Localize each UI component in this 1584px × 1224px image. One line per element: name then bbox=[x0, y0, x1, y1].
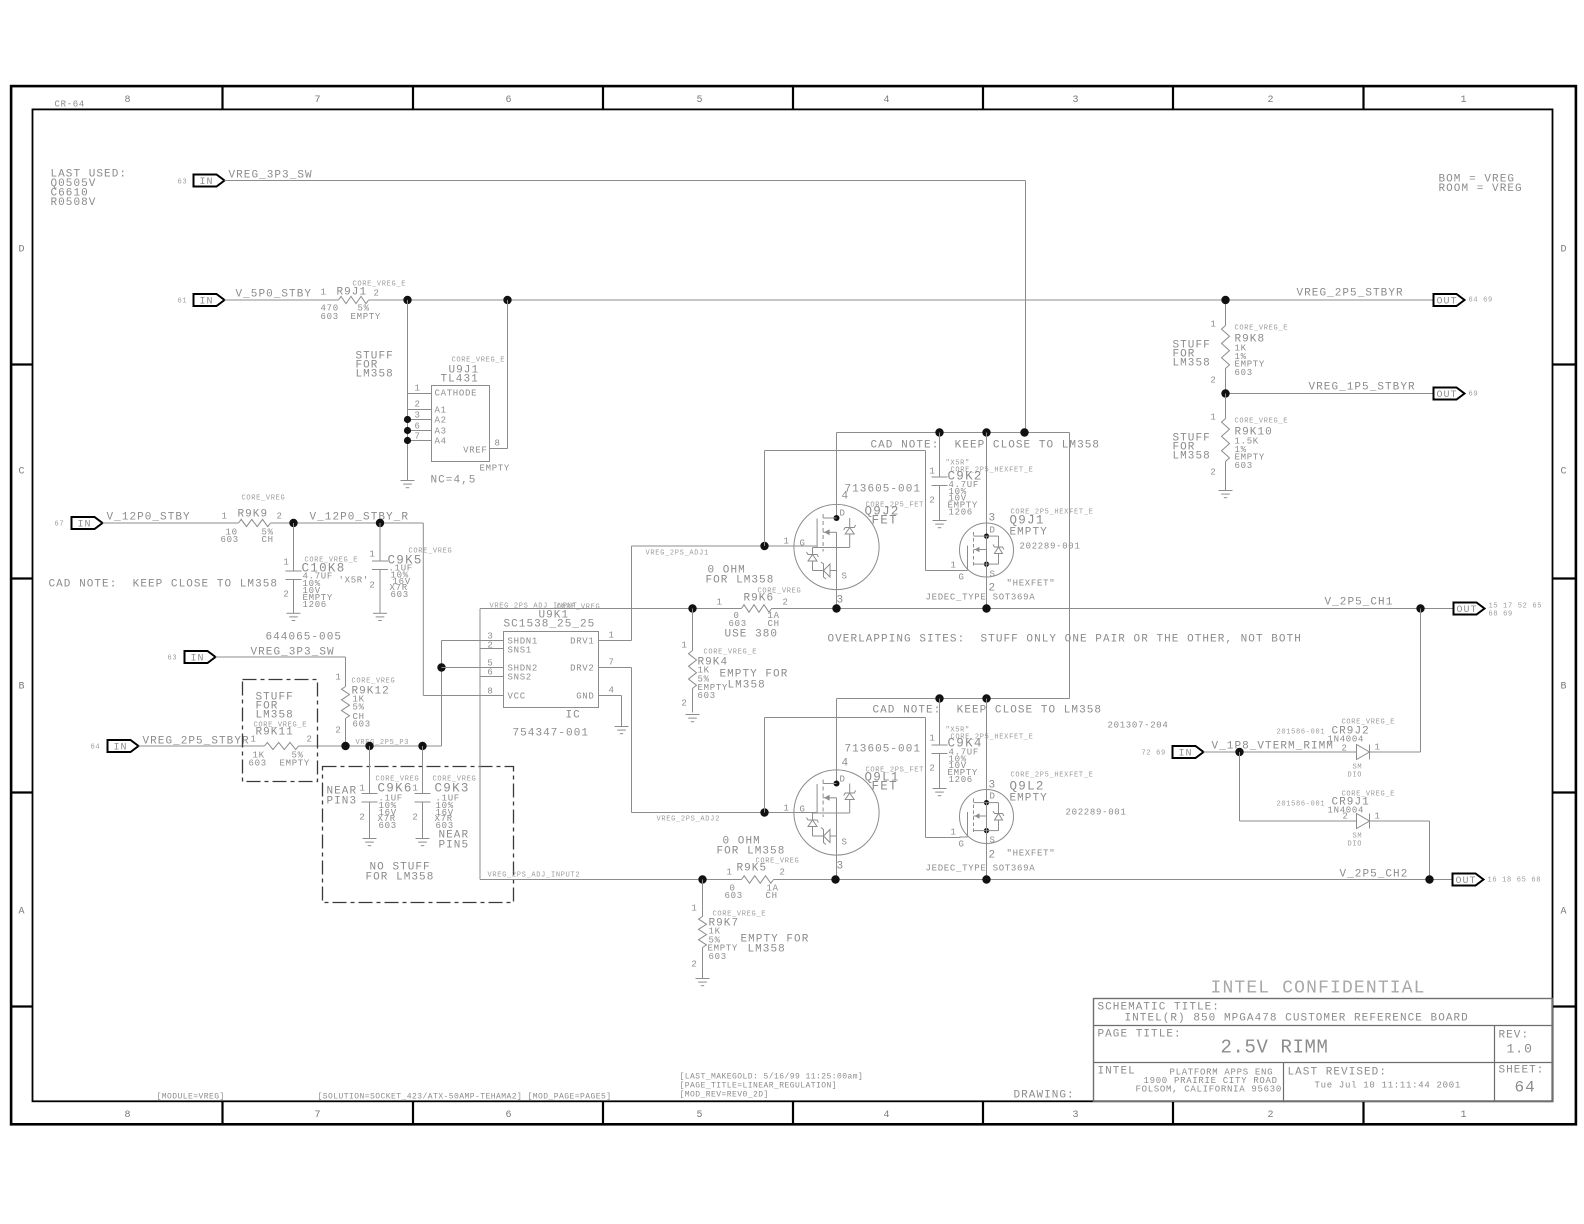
svg-text:CAD NOTE: KEEP CLOSE TO LM358: CAD NOTE: KEEP CLOSE TO LM358 bbox=[49, 579, 279, 591]
svg-text:V_12P0_STBY: V_12P0_STBY bbox=[107, 512, 191, 524]
svg-text:1: 1 bbox=[929, 467, 935, 477]
svg-text:603: 603 bbox=[391, 590, 409, 600]
svg-text:S: S bbox=[842, 572, 848, 582]
note VREG_2PS_ADJ_INPUT2 bbox=[488, 872, 581, 880]
svg-text:OVERLAPPING SITES: STUFF ONLY: OVERLAPPING SITES: STUFF ONLY ONE PAIR O… bbox=[828, 634, 1302, 646]
svg-text:2: 2 bbox=[989, 850, 997, 862]
resistor R9K8 bbox=[1210, 300, 1288, 394]
svg-text:[LAST_MAKEGOLD: 5/16/99 11:25:: [LAST_MAKEGOLD: 5/16/99 11:25:00am] bbox=[680, 1073, 864, 1082]
note LAST USED list bbox=[51, 169, 128, 210]
svg-text:C: C bbox=[19, 467, 26, 478]
svg-text:VREG_2P5_STBYR: VREG_2P5_STBYR bbox=[1297, 288, 1404, 300]
svg-text:USE 380: USE 380 bbox=[725, 629, 779, 641]
svg-text:1: 1 bbox=[335, 673, 341, 683]
svg-text:3: 3 bbox=[837, 861, 845, 873]
svg-text:7: 7 bbox=[315, 95, 322, 106]
junction TL431 pin 6 bbox=[404, 427, 411, 434]
capacitor C9K4 bbox=[929, 699, 1033, 789]
wire V_1P8_VTERM_RIMM bbox=[1204, 751, 1357, 753]
svg-text:1: 1 bbox=[369, 550, 375, 560]
wire VREG_2P5_P3 bbox=[299, 641, 442, 748]
junction V_2P5_CH1 / Q9J2 source bbox=[832, 604, 840, 612]
junction TL431 pin 7 bbox=[404, 437, 411, 444]
junction drain rail / VREG_3P3_SW bbox=[1020, 428, 1028, 436]
svg-text:A: A bbox=[1561, 907, 1568, 918]
svg-text:1: 1 bbox=[717, 598, 723, 608]
diode CR9J1 1N4004 bbox=[1277, 791, 1396, 849]
svg-text:NC=4,5: NC=4,5 bbox=[431, 475, 477, 487]
note dashed box NO STUFF FOR LM358 bbox=[323, 767, 514, 903]
svg-text:202289-001: 202289-001 bbox=[1020, 542, 1081, 552]
wire CR9J2 cathode to V_2P5_CH1 bbox=[1370, 609, 1421, 753]
ground (C9K3) bbox=[416, 839, 430, 846]
svg-text:G: G bbox=[959, 840, 965, 850]
svg-text:603: 603 bbox=[709, 952, 727, 962]
wire drain rail lower (CAD NOTE) bbox=[837, 698, 1070, 700]
svg-text:D: D bbox=[19, 245, 26, 256]
svg-text:2: 2 bbox=[415, 400, 421, 410]
note part 644065-005 bbox=[266, 632, 343, 644]
svg-text:A1: A1 bbox=[435, 406, 447, 416]
op-amp U9J1 TL431 bbox=[408, 357, 511, 487]
port 67 IN V_12P0_STBY bbox=[55, 512, 191, 531]
svg-text:202289-001: 202289-001 bbox=[1066, 808, 1127, 818]
svg-text:DRV1: DRV1 bbox=[570, 637, 594, 647]
port 63 IN VREG_3P3_SW (lower) bbox=[168, 647, 335, 665]
svg-text:63: 63 bbox=[178, 179, 188, 187]
svg-text:FET: FET bbox=[872, 780, 898, 794]
resistor R9K10 bbox=[1210, 394, 1288, 491]
svg-text:LM358: LM358 bbox=[1173, 451, 1211, 463]
svg-text:B: B bbox=[19, 682, 26, 693]
svg-text:SC1538_25_25: SC1538_25_25 bbox=[504, 619, 596, 631]
svg-text:3: 3 bbox=[989, 513, 997, 525]
svg-text:1: 1 bbox=[929, 734, 935, 744]
transistor Q9L2 HEXFET bbox=[926, 699, 1127, 880]
svg-text:VREG_1P5_STBYR: VREG_1P5_STBYR bbox=[1309, 382, 1416, 394]
port OUT VREG_2P5_STBYR bbox=[1297, 288, 1493, 308]
svg-text:VREG_2PS_ADJ1: VREG_2PS_ADJ1 bbox=[646, 550, 709, 558]
port OUT VREG_1P5_STBYR bbox=[1309, 382, 1479, 402]
svg-text:603: 603 bbox=[698, 691, 716, 701]
wire TL431 cathode/anode stack bbox=[407, 300, 409, 481]
resistor R9J1 bbox=[321, 281, 407, 323]
svg-text:LM358: LM358 bbox=[356, 369, 394, 381]
svg-text:INTEL CONFIDENTIAL: INTEL CONFIDENTIAL bbox=[1211, 979, 1426, 999]
junction V_12P0_STBY_R / C9K5 bbox=[376, 519, 384, 527]
wire VREG_3P3_SW bbox=[225, 181, 1026, 433]
resistor R9K5 bbox=[725, 858, 800, 902]
svg-text:D: D bbox=[840, 775, 846, 785]
svg-text:FOR LM358: FOR LM358 bbox=[366, 872, 435, 884]
port 61 IN V_5P0_STBY bbox=[178, 289, 313, 308]
svg-text:[PAGE_TITLE=LINEAR_REGULATION]: [PAGE_TITLE=LINEAR_REGULATION] bbox=[680, 1082, 838, 1091]
ground (C9K4) bbox=[933, 789, 947, 796]
IC U9K1 SC1538_25_25 bbox=[487, 603, 614, 740]
svg-text:"HEXFET": "HEXFET" bbox=[1007, 849, 1056, 859]
diode CR9J2 1N4004 bbox=[1277, 719, 1396, 780]
resistor R9K11 bbox=[249, 722, 313, 769]
svg-text:1: 1 bbox=[222, 512, 228, 522]
note DRAWING: bbox=[1014, 1090, 1075, 1102]
svg-text:2: 2 bbox=[1343, 812, 1349, 822]
svg-text:VREG_2P5_P3: VREG_2P5_P3 bbox=[356, 739, 410, 747]
junction V_2P5_CH2 / CR9J1 bbox=[1425, 875, 1433, 883]
svg-text:S: S bbox=[990, 836, 996, 846]
svg-text:A: A bbox=[19, 907, 26, 918]
svg-text:1: 1 bbox=[609, 631, 615, 641]
svg-text:2.5V RIMM: 2.5V RIMM bbox=[1221, 1037, 1329, 1059]
capacitor C9K3 bbox=[412, 746, 476, 852]
svg-text:S: S bbox=[842, 838, 848, 848]
svg-text:4: 4 bbox=[884, 1110, 891, 1121]
junction on V_5P0_STBY at VREF feedback bbox=[503, 296, 511, 304]
svg-text:1: 1 bbox=[1210, 413, 1216, 423]
svg-text:72 69: 72 69 bbox=[1142, 750, 1166, 758]
svg-text:EMPTY: EMPTY bbox=[1010, 527, 1048, 539]
svg-text:1: 1 bbox=[951, 561, 957, 571]
svg-text:4: 4 bbox=[842, 758, 850, 770]
svg-text:603: 603 bbox=[725, 891, 743, 901]
svg-text:2: 2 bbox=[374, 289, 380, 299]
svg-text:Tue Jul 10 11:11:44 2001: Tue Jul 10 11:11:44 2001 bbox=[1315, 1081, 1461, 1091]
svg-text:4: 4 bbox=[884, 95, 891, 106]
svg-text:OUT: OUT bbox=[1437, 390, 1458, 401]
wire gate link to Q9J1 bbox=[765, 451, 961, 571]
svg-text:1: 1 bbox=[951, 828, 957, 838]
svg-text:CORE_VREG: CORE_VREG bbox=[242, 495, 286, 503]
svg-text:5: 5 bbox=[697, 1110, 704, 1121]
svg-text:2: 2 bbox=[681, 699, 687, 709]
svg-text:D: D bbox=[990, 792, 996, 802]
svg-text:1: 1 bbox=[727, 868, 733, 878]
svg-text:VREG_2PS_ADJ_INPUT2: VREG_2PS_ADJ_INPUT2 bbox=[488, 872, 581, 880]
svg-text:603: 603 bbox=[249, 759, 267, 769]
ground (R9K10) bbox=[1219, 491, 1233, 498]
transistor Q9J2 FET bbox=[784, 433, 925, 609]
junction P3 / R9K12 bbox=[341, 742, 349, 750]
svg-text:2: 2 bbox=[412, 813, 418, 823]
junction P3 / C9K6 bbox=[365, 742, 373, 750]
svg-text:OUT: OUT bbox=[1456, 876, 1477, 887]
resistor R9K9 bbox=[221, 495, 286, 546]
ground (R9K7) bbox=[696, 979, 710, 986]
svg-text:603: 603 bbox=[729, 619, 747, 629]
svg-text:CH: CH bbox=[768, 619, 780, 629]
svg-text:B: B bbox=[1561, 682, 1568, 693]
svg-text:EMPTY: EMPTY bbox=[280, 759, 311, 769]
junction SHDN2 tap bbox=[437, 663, 445, 671]
svg-text:EMPTY: EMPTY bbox=[351, 312, 382, 322]
svg-text:TL431: TL431 bbox=[441, 374, 479, 386]
svg-text:201586-001: 201586-001 bbox=[1277, 801, 1326, 809]
wire V_2P5_CH2 rail bbox=[480, 879, 1453, 881]
svg-text:2: 2 bbox=[929, 496, 935, 506]
port OUT V_2P5_CH1 bbox=[1325, 597, 1543, 619]
svg-text:R9K9: R9K9 bbox=[238, 509, 269, 521]
svg-text:15 17 52 65: 15 17 52 65 bbox=[1489, 603, 1543, 611]
wire SHDN1/SHDN2 tie bbox=[442, 641, 504, 668]
svg-text:CORE_2P5_HEXFET_E: CORE_2P5_HEXFET_E bbox=[1011, 772, 1094, 780]
wire GND pin U9K1 bbox=[599, 696, 622, 727]
svg-text:SM: SM bbox=[1353, 833, 1363, 841]
svg-text:G: G bbox=[800, 539, 806, 549]
svg-text:16 18 65 68: 16 18 65 68 bbox=[1488, 877, 1542, 885]
svg-text:V_1P8_VTERM_RIMM: V_1P8_VTERM_RIMM bbox=[1212, 741, 1334, 753]
svg-text:603: 603 bbox=[321, 312, 339, 322]
wire gate link to Q9L2 bbox=[765, 718, 961, 838]
junction P3 / C9K3 bbox=[418, 742, 426, 750]
svg-text:INTEL: INTEL bbox=[1098, 1066, 1136, 1078]
svg-text:S: S bbox=[990, 570, 996, 580]
svg-text:FET: FET bbox=[872, 514, 898, 528]
svg-text:SNS2: SNS2 bbox=[508, 673, 532, 683]
svg-text:1: 1 bbox=[1210, 320, 1216, 330]
svg-text:5%: 5% bbox=[353, 703, 365, 713]
svg-text:3: 3 bbox=[989, 780, 997, 792]
svg-text:64: 64 bbox=[1515, 1079, 1536, 1097]
svg-text:VREF: VREF bbox=[463, 446, 487, 456]
svg-text:2: 2 bbox=[335, 726, 341, 736]
capacitor C9K2 bbox=[929, 433, 1033, 521]
junction V_2P5_CH2 / Q9L2 source bbox=[982, 875, 990, 883]
resistor R9K12 bbox=[335, 673, 395, 747]
note OVERLAPPING SITES bbox=[828, 634, 1302, 646]
ground (C9K6) bbox=[363, 839, 377, 846]
note 0 OHM FOR LM358 (R9K6) bbox=[706, 565, 775, 587]
svg-text:1: 1 bbox=[1375, 743, 1381, 753]
ground (C9K2) bbox=[933, 521, 947, 528]
svg-text:5: 5 bbox=[697, 95, 704, 106]
title block bbox=[1094, 999, 1553, 1102]
svg-text:6: 6 bbox=[506, 1110, 513, 1121]
transistor Q9L1 FET bbox=[784, 699, 925, 880]
svg-text:3: 3 bbox=[1073, 1110, 1080, 1121]
svg-text:64: 64 bbox=[91, 744, 101, 752]
capacitor C9K5 bbox=[369, 523, 452, 613]
capacitor C9K6 bbox=[327, 746, 420, 839]
svg-text:1N4004: 1N4004 bbox=[1328, 735, 1365, 745]
ground (C9K5) bbox=[373, 613, 387, 620]
note STUFF FOR LM358 (R9K8) bbox=[1173, 340, 1211, 370]
junction V_2P5_CH2 / R9K7 bbox=[698, 875, 706, 883]
svg-text:603: 603 bbox=[1235, 368, 1253, 378]
svg-text:68 69: 68 69 bbox=[1489, 611, 1513, 619]
svg-text:A4: A4 bbox=[435, 437, 447, 447]
svg-text:63: 63 bbox=[168, 655, 178, 663]
svg-text:GND: GND bbox=[576, 692, 594, 702]
svg-text:EMPTY: EMPTY bbox=[480, 464, 511, 474]
port 72 69 IN V_1P8_VTERM_RIMM bbox=[1142, 741, 1348, 760]
svg-text:644065-005: 644065-005 bbox=[266, 632, 343, 644]
svg-text:8: 8 bbox=[125, 95, 132, 106]
junction Q9J2 gate bbox=[760, 542, 768, 550]
svg-text:G: G bbox=[800, 805, 806, 815]
svg-text:Q9L2: Q9L2 bbox=[1010, 780, 1045, 794]
svg-text:CORE_VREG: CORE_VREG bbox=[756, 858, 800, 866]
note plot stamps bbox=[157, 1073, 864, 1102]
svg-text:A2: A2 bbox=[435, 416, 447, 426]
svg-text:R0508V: R0508V bbox=[51, 197, 97, 209]
svg-text:6: 6 bbox=[506, 95, 513, 106]
wire V_2P5_CH1 rail bbox=[480, 608, 1454, 610]
svg-text:603: 603 bbox=[353, 720, 371, 730]
ground (U9K1) bbox=[615, 727, 629, 734]
note STUFF FOR LM358 (U9J1) bbox=[356, 351, 394, 381]
wire VREF feedback bbox=[507, 300, 509, 449]
svg-text:CAD NOTE: KEEP CLOSE TO LM358: CAD NOTE: KEEP CLOSE TO LM358 bbox=[873, 705, 1103, 717]
svg-text:DRV2: DRV2 bbox=[570, 664, 594, 674]
svg-text:8: 8 bbox=[487, 687, 493, 697]
note CAD NOTE keep close (left) bbox=[49, 579, 279, 591]
svg-text:1: 1 bbox=[412, 784, 418, 794]
junction R9K6 pin1 / R9K4 bbox=[688, 604, 696, 612]
svg-text:[SOLUTION=SOCKET_423/ATX-50AMP: [SOLUTION=SOCKET_423/ATX-50AMP-TEHAMA2] … bbox=[318, 1093, 612, 1102]
ground (C10K8) bbox=[287, 613, 301, 620]
junction drain rail / Q9J1 bbox=[982, 428, 990, 436]
svg-text:DIO: DIO bbox=[1348, 841, 1363, 849]
svg-text:G: G bbox=[959, 573, 965, 583]
wire CR9J1 cathode to V_2P5_CH2 bbox=[1370, 821, 1430, 880]
svg-text:8: 8 bbox=[125, 1110, 132, 1121]
svg-text:LAST REVISED:: LAST REVISED: bbox=[1288, 1067, 1387, 1079]
svg-text:V_2P5_CH2: V_2P5_CH2 bbox=[1340, 869, 1409, 881]
junction Q9L1 gate bbox=[760, 808, 768, 816]
capacitor C10K8 bbox=[283, 523, 369, 613]
svg-text:CORE_VREG_E: CORE_VREG_E bbox=[704, 649, 758, 657]
svg-text:603: 603 bbox=[1235, 461, 1253, 471]
svg-text:[MODULE=VREG]: [MODULE=VREG] bbox=[157, 1093, 225, 1102]
svg-text:2: 2 bbox=[1210, 468, 1216, 478]
note CAD NOTE upper bbox=[871, 440, 1101, 452]
note dashed box STUFF FOR LM358 bbox=[243, 680, 318, 782]
svg-text:67: 67 bbox=[55, 521, 65, 529]
svg-text:V_12P0_STBY_R: V_12P0_STBY_R bbox=[310, 512, 409, 524]
svg-text:1: 1 bbox=[283, 558, 289, 568]
svg-text:Q9J1: Q9J1 bbox=[1010, 514, 1045, 528]
svg-text:PAGE TITLE:: PAGE TITLE: bbox=[1098, 1029, 1182, 1041]
svg-text:2: 2 bbox=[1268, 95, 1275, 106]
svg-text:JEDEC_TYPE SOT369A: JEDEC_TYPE SOT369A bbox=[926, 864, 1036, 874]
svg-text:2: 2 bbox=[691, 960, 697, 970]
svg-text:"HEXFET": "HEXFET" bbox=[1007, 579, 1056, 589]
resistor R9K6 bbox=[717, 588, 802, 641]
svg-text:A3: A3 bbox=[435, 427, 447, 437]
svg-text:CH: CH bbox=[262, 535, 274, 545]
svg-text:2: 2 bbox=[783, 598, 789, 608]
junction drain rail / C9K2 bbox=[935, 428, 943, 436]
svg-text:1206: 1206 bbox=[303, 600, 327, 610]
svg-text:1: 1 bbox=[784, 804, 790, 814]
junction drain rail lower / C9K4 bbox=[935, 694, 943, 702]
svg-text:1206: 1206 bbox=[949, 508, 973, 518]
transistor Q9J1 HEXFET bbox=[926, 433, 1094, 609]
svg-text:1: 1 bbox=[1375, 812, 1381, 822]
svg-text:6: 6 bbox=[415, 422, 421, 432]
svg-text:DIO: DIO bbox=[1348, 772, 1363, 780]
svg-text:2: 2 bbox=[307, 735, 313, 745]
svg-text:FOLSOM, CALIFORNIA 95630: FOLSOM, CALIFORNIA 95630 bbox=[1136, 1085, 1282, 1095]
wire VREG_3P3_SW to R9K12 bbox=[216, 657, 346, 687]
svg-text:OUT: OUT bbox=[1457, 605, 1478, 616]
svg-text:64 69: 64 69 bbox=[1469, 297, 1493, 305]
svg-text:2: 2 bbox=[780, 868, 786, 878]
svg-text:LM358: LM358 bbox=[1173, 358, 1211, 370]
svg-text:D: D bbox=[1561, 245, 1568, 256]
svg-text:7: 7 bbox=[609, 658, 615, 668]
svg-text:FOR LM358: FOR LM358 bbox=[717, 846, 786, 858]
svg-text:CATHODE: CATHODE bbox=[435, 389, 478, 399]
note STUFF FOR LM358 (R9K10) bbox=[1173, 433, 1211, 463]
junction VREG_2P5_STBYR / R9K8 bbox=[1221, 296, 1229, 304]
svg-text:INTEL(R) 850 MPGA478 CUSTOMER: INTEL(R) 850 MPGA478 CUSTOMER REFERENCE … bbox=[1125, 1013, 1469, 1025]
svg-text:1.0: 1.0 bbox=[1507, 1042, 1533, 1057]
svg-text:IN: IN bbox=[114, 743, 128, 754]
svg-text:CORE_VREG_E: CORE_VREG_E bbox=[254, 722, 308, 730]
wire V_12P0_STBY_R bbox=[271, 512, 504, 696]
svg-text:REV:: REV: bbox=[1499, 1030, 1530, 1042]
port 63 IN VREG_3P3_SW bbox=[178, 170, 313, 189]
note 0 OHM FOR LM358 (R9K5) bbox=[717, 836, 786, 858]
svg-text:V_2P5_CH1: V_2P5_CH1 bbox=[1325, 597, 1394, 609]
svg-text:IN: IN bbox=[1179, 749, 1193, 760]
svg-text:[MOD_REV=REV0_2D]: [MOD_REV=REV0_2D] bbox=[680, 1091, 769, 1100]
svg-text:1206: 1206 bbox=[949, 775, 973, 785]
wire VREG_2P5_STBYR to R9K11 bbox=[139, 745, 265, 747]
wire DRV2 VREG_2PS_ADJ2 bbox=[599, 668, 817, 824]
svg-text:1: 1 bbox=[359, 784, 365, 794]
svg-text:2: 2 bbox=[277, 512, 283, 522]
wire VREG_1P5_STBYR bbox=[1226, 393, 1434, 395]
svg-text:D: D bbox=[990, 526, 996, 536]
svg-text:ROOM = VREG: ROOM = VREG bbox=[1439, 183, 1523, 195]
svg-text:CR-64: CR-64 bbox=[55, 100, 86, 110]
svg-text:'X5R': 'X5R' bbox=[339, 576, 370, 586]
svg-text:IN: IN bbox=[191, 654, 205, 665]
svg-text:IN: IN bbox=[78, 520, 92, 531]
svg-text:201307-204: 201307-204 bbox=[1108, 721, 1169, 731]
junction V_12P0_STBY_R / C10K8 bbox=[289, 519, 297, 527]
svg-text:OUT: OUT bbox=[1437, 297, 1458, 308]
junction V_1P8_VTERM_RIMM bbox=[1235, 748, 1243, 756]
svg-text:1: 1 bbox=[681, 641, 687, 651]
junction V_2P5_CH2 / Q9L1 source bbox=[831, 875, 839, 883]
svg-text:1: 1 bbox=[321, 288, 327, 298]
note INTEL CONFIDENTIAL bbox=[1211, 979, 1426, 999]
wire to CR9J1 bbox=[1240, 752, 1357, 821]
svg-text:1: 1 bbox=[415, 384, 421, 394]
ground (TL431) bbox=[401, 481, 415, 488]
svg-text:1: 1 bbox=[691, 904, 697, 914]
svg-text:CORE_VREG_E: CORE_VREG_E bbox=[452, 357, 506, 365]
svg-text:C: C bbox=[1561, 467, 1568, 478]
svg-text:LM358: LM358 bbox=[728, 680, 766, 692]
svg-text:D: D bbox=[840, 509, 846, 519]
svg-text:7: 7 bbox=[315, 1110, 322, 1121]
svg-text:1: 1 bbox=[784, 537, 790, 547]
svg-text:2: 2 bbox=[929, 764, 935, 774]
svg-text:IN: IN bbox=[200, 177, 214, 188]
svg-text:4: 4 bbox=[609, 686, 615, 696]
svg-text:713605-001: 713605-001 bbox=[845, 484, 922, 496]
svg-text:FOR LM358: FOR LM358 bbox=[706, 575, 775, 587]
svg-text:LM358: LM358 bbox=[256, 710, 294, 722]
junction TL431 pin 3 bbox=[404, 416, 411, 423]
svg-text:CORE_VREG_E: CORE_VREG_E bbox=[1235, 418, 1289, 426]
svg-text:754347-001: 754347-001 bbox=[513, 728, 590, 740]
svg-text:8: 8 bbox=[495, 439, 501, 449]
svg-text:IC: IC bbox=[566, 710, 581, 722]
